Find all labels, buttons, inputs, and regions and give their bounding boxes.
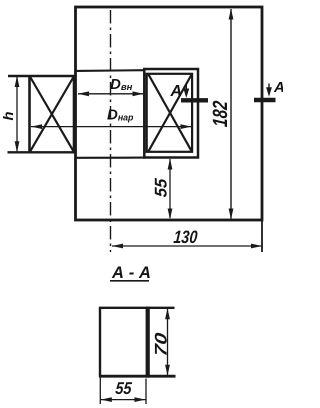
left winding box left edge [28,75,31,153]
svg-text:55: 55 [115,380,134,398]
svg-text:70: 70 [152,331,171,357]
section mark bar at winding [181,98,208,102]
svg-text:A: A [273,79,283,96]
right winding diagonal 2 [149,75,192,152]
dimension 130 line [112,244,262,249]
bobbin tube top line [76,69,145,72]
right winding inner box [147,74,192,152]
svg-text:55: 55 [151,177,170,198]
right winding diagonal 1 [149,75,192,152]
section arrow at plate edge [266,84,272,97]
svg-text:h: h [1,111,17,120]
section rectangle top edge with extension [99,307,175,309]
dimension 130 label [173,227,198,247]
right edge extension line [261,220,263,252]
left winding box diagonal 2 [30,77,73,151]
center line [110,10,112,252]
section rectangle bottom edge with extension [99,375,176,378]
section rectangle right edge [146,307,150,378]
svg-text:130: 130 [173,227,198,247]
left winding box top edge with extension [8,75,76,77]
dimension Dnar line [31,124,192,129]
dimension 55 label (section) [115,380,134,398]
bobbin tube bottom line [76,157,145,159]
dimension 55 label (main view) [151,177,170,198]
dimension h label [1,111,17,120]
dimension h line [15,76,20,152]
section label A at plate edge [273,79,285,96]
dimension 55 line (main view) [168,159,173,220]
dimension 55 extension lines (section) [100,378,146,405]
svg-text:A - A: A - A [111,264,151,282]
section rectangle left edge [99,307,101,377]
section title A-A [110,264,151,282]
dimension 55 line (section) [100,397,146,402]
dimension Dvn line [78,91,144,96]
dimension Dvn label [110,76,133,93]
left winding box diagonal 1 [30,77,73,151]
section mark bar at plate edge [254,98,276,102]
svg-text:182: 182 [208,100,232,128]
dimension 70 line [165,308,170,375]
core plate outline [76,7,263,220]
left winding box right edge [73,76,75,152]
right winding outer box [144,69,198,158]
left winding box bottom edge with extension [8,151,76,153]
svg-text:Dнар: Dнар [107,107,134,124]
dimension 182 label [208,100,232,128]
svg-text:Dвн: Dвн [110,76,133,93]
dimension 182 line [229,9,234,220]
dimension 70 label [152,331,171,357]
svg-text:A: A [170,83,183,100]
dimension Dnar label [107,107,134,124]
section arrow at winding [183,85,189,99]
section label A at winding [170,83,183,100]
